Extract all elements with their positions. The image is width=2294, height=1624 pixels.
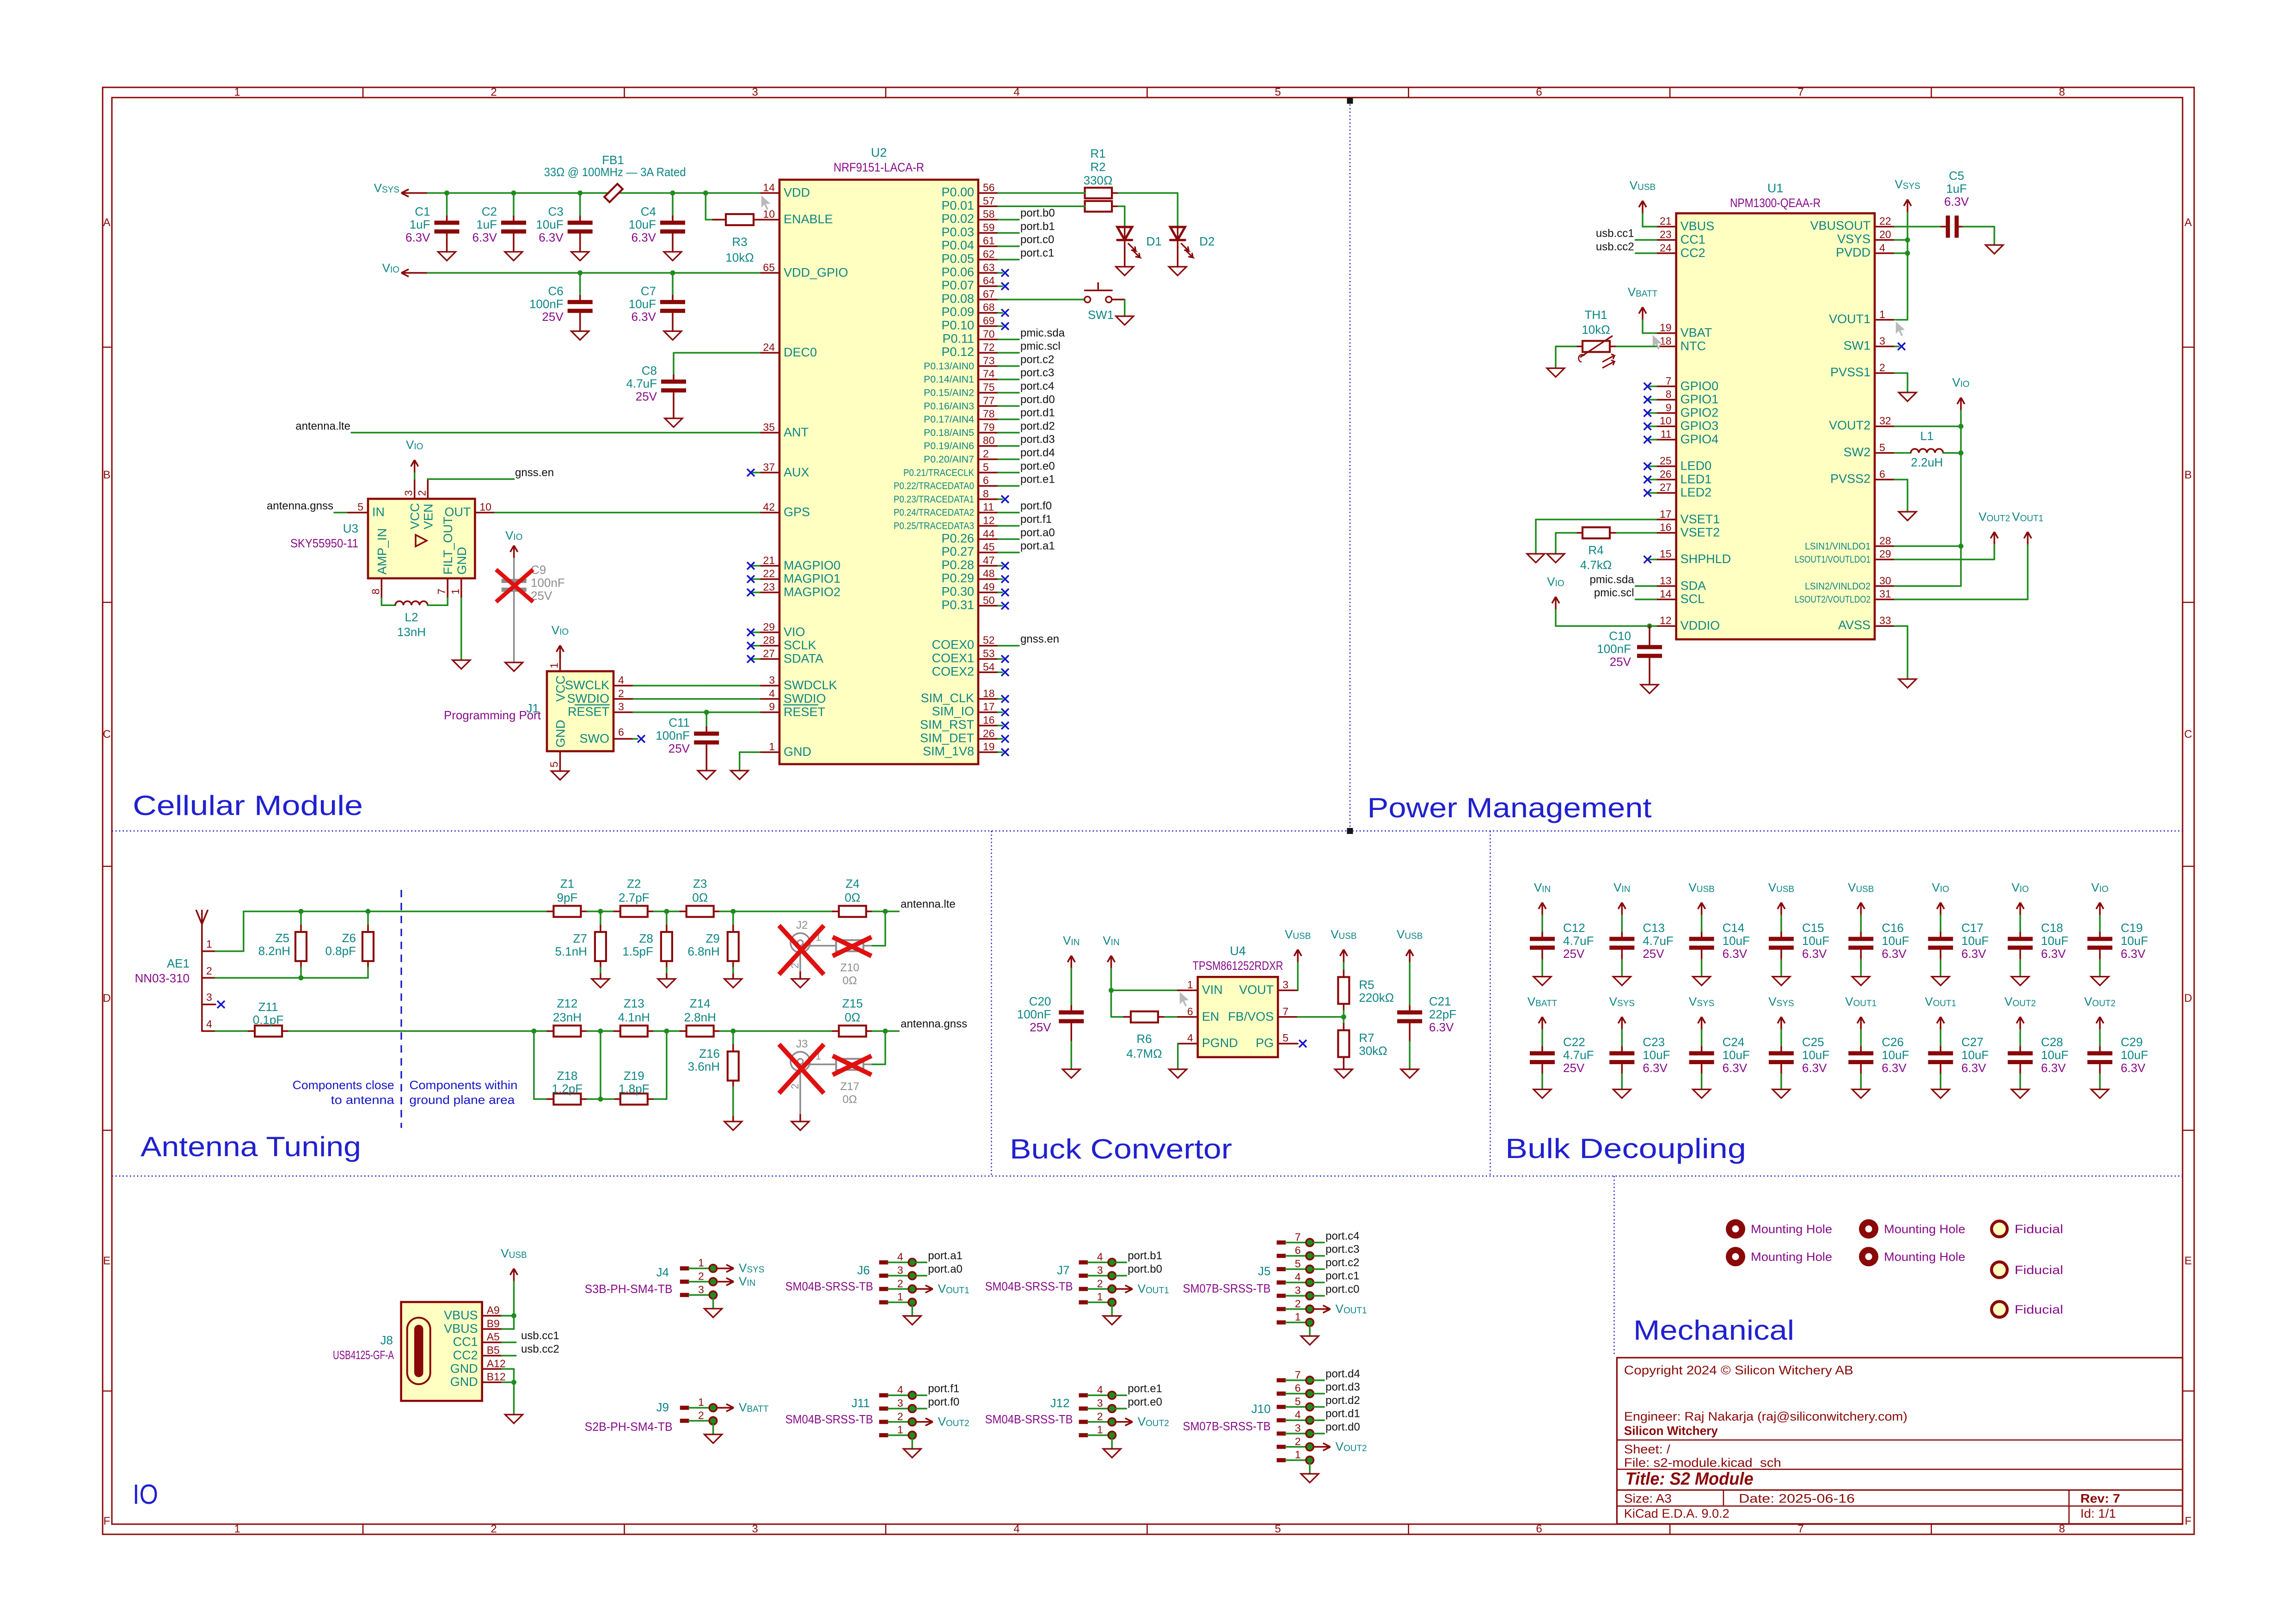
svg-text:1: 1 (1097, 1424, 1103, 1436)
ground below J11 (911, 1439, 913, 1449)
junction (366, 909, 371, 914)
svg-text:USB4125-GF-A: USB4125-GF-A (333, 1348, 394, 1362)
svg-text:16: 16 (983, 714, 995, 726)
AE1 pin 4 (202, 1030, 215, 1032)
svg-text:23nH: 23nH (553, 1010, 582, 1024)
svg-text:25: 25 (1660, 455, 1672, 467)
U2 pin 58 P0.02 (978, 219, 998, 221)
J4 pin 1 (680, 1266, 689, 1270)
U3 pin 2 VEN (427, 479, 429, 499)
svg-text:Sheet: /: Sheet: / (1624, 1442, 1671, 1456)
svg-text:7: 7 (1797, 1523, 1803, 1535)
svg-text:74: 74 (983, 368, 995, 380)
svg-text:PVSS1: PVSS1 (1830, 365, 1871, 379)
svg-text:port.a1: port.a1 (1020, 540, 1055, 552)
svg-text:D: D (2184, 992, 2192, 1005)
capacitor C10 100nF (1649, 626, 1650, 647)
junction (670, 270, 675, 276)
svg-text:C22: C22 (1563, 1035, 1585, 1049)
svg-text:1: 1 (234, 86, 240, 98)
wire VOUT2 (1895, 425, 1961, 427)
svg-text:to antenna: to antenna (331, 1093, 395, 1107)
svg-text:C6: C6 (548, 284, 563, 298)
junction (511, 1380, 516, 1385)
svg-text:3: 3 (403, 490, 415, 496)
U2 pin 64 P0.07 (978, 285, 998, 287)
svg-text:1.5pF: 1.5pF (622, 944, 653, 958)
capacitor C19 10uF (2096, 902, 2104, 915)
svg-text:6.3V: 6.3V (2041, 947, 2066, 961)
capacitor C26 10uF (1857, 1017, 1865, 1030)
svg-text:antenna.lte: antenna.lte (295, 420, 350, 432)
net label usb.cc2 at J8 (502, 1355, 516, 1357)
U4 pin 7 FB/VOS (1278, 1016, 1298, 1018)
resistor Z16 3.6nH (732, 1031, 734, 1045)
U2 pin 47 P0.28 (978, 565, 998, 567)
wire riser Z18/Z19 (600, 1031, 601, 1099)
svg-text:C15: C15 (1802, 921, 1824, 935)
AE1 pin 2 (202, 977, 215, 979)
capacitor C22 4.7uF (1539, 1017, 1546, 1030)
svg-text:SCLK: SCLK (784, 638, 816, 652)
wire VIO vertical rail (1960, 411, 1962, 586)
svg-text:R4: R4 (1588, 543, 1603, 557)
U2 pin 54 COEX2 (978, 672, 998, 674)
svg-text:33Ω @ 100MHz — 3A Rated: 33Ω @ 100MHz — 3A Rated (544, 165, 686, 179)
svg-text:6: 6 (1536, 1523, 1542, 1535)
svg-text:67: 67 (983, 288, 995, 300)
svg-text:SW2: SW2 (1843, 445, 1871, 459)
resistor R5 220kOhm (1343, 962, 1345, 970)
mouse cursor near U2 VDD (761, 195, 771, 210)
svg-text:SDA: SDA (1681, 579, 1706, 593)
wire J8 VBUS rail (513, 1281, 515, 1329)
capacitor C21 22pF (1409, 962, 1411, 1006)
svg-text:79: 79 (983, 421, 995, 433)
svg-text:4: 4 (1879, 242, 1885, 254)
svg-text:4: 4 (1013, 86, 1019, 98)
svg-text:1: 1 (1295, 1311, 1301, 1323)
svg-text:6.3V: 6.3V (1723, 947, 1748, 961)
section separator vertical (Antenna Tuning | Buck Convertor) (991, 831, 992, 1177)
svg-text:FB/VOS: FB/VOS (1228, 1010, 1274, 1023)
svg-text:C4: C4 (641, 205, 656, 219)
svg-text:30: 30 (1879, 575, 1891, 587)
svg-text:GPIO3: GPIO3 (1681, 419, 1719, 433)
svg-text:35: 35 (763, 421, 775, 433)
svg-text:P0.05: P0.05 (941, 252, 974, 266)
U3 pin 1 GND (460, 578, 462, 598)
capacitor C11 100nF (705, 712, 707, 727)
capacitor C15 10uF (1778, 902, 1785, 915)
power flag VOUT2 at J10 (1314, 1443, 1331, 1451)
svg-text:Z10: Z10 (840, 962, 859, 974)
svg-text:port.d1: port.d1 (1325, 1408, 1360, 1420)
svg-text:J12: J12 (1050, 1396, 1070, 1410)
svg-text:13nH: 13nH (397, 625, 426, 639)
U2 pin 49 P0.30 (978, 592, 998, 594)
svg-text:R6: R6 (1136, 1032, 1152, 1046)
wire C5 to ground (1957, 226, 1963, 227)
power symbol VUSB at U4 VOUT (1294, 950, 1301, 962)
svg-text:port.e1: port.e1 (1020, 473, 1055, 486)
wire PGND to ground (1177, 1043, 1179, 1045)
svg-text:B12: B12 (487, 1371, 506, 1383)
svg-text:B9: B9 (487, 1318, 500, 1330)
svg-text:3: 3 (1879, 335, 1885, 347)
wire AVSS to ground (1895, 625, 1908, 627)
svg-text:Date: 2025-06-16: Date: 2025-06-16 (1739, 1492, 1855, 1506)
svg-text:port.c4: port.c4 (1325, 1230, 1359, 1242)
svg-text:LED0: LED0 (1681, 459, 1712, 473)
ground below U2 GND (731, 771, 748, 779)
svg-text:14: 14 (1660, 588, 1672, 600)
svg-text:1.2pF: 1.2pF (552, 1082, 583, 1096)
resistor Z3 0 ohm (687, 906, 714, 917)
wire Z11 to Z12 (289, 1030, 547, 1032)
svg-text:80: 80 (983, 435, 995, 447)
svg-text:6.3V: 6.3V (2121, 947, 2146, 961)
svg-text:VDDIO: VDDIO (1681, 619, 1720, 632)
mounting hole MK2 (1859, 1219, 1878, 1238)
svg-text:73: 73 (983, 355, 995, 367)
svg-text:D2: D2 (1199, 234, 1214, 248)
J12 pin 2 (1079, 1420, 1088, 1424)
svg-text:P0.20/AIN7: P0.20/AIN7 (924, 454, 974, 465)
U1 pin 16 VSET2 (1656, 532, 1676, 534)
U1 pin 1 VOUT1 (1875, 319, 1895, 321)
svg-text:Z13: Z13 (624, 996, 644, 1010)
svg-text:GPIO2: GPIO2 (1681, 405, 1719, 419)
svg-text:27: 27 (1660, 481, 1672, 493)
svg-text:10uF: 10uF (1882, 1048, 1909, 1062)
section separator vertical (Buck Convertor | Bulk Decoupling) (1490, 831, 1490, 1177)
svg-text:port.c2: port.c2 (1020, 353, 1054, 366)
svg-text:0Ω: 0Ω (845, 1010, 860, 1024)
U1 pin 27 LED2 (1656, 492, 1676, 494)
U1 pin 25 LED0 (1656, 466, 1676, 467)
svg-text:SDATA: SDATA (784, 652, 823, 666)
svg-text:S2B-PH-SM4-TB: S2B-PH-SM4-TB (585, 1420, 673, 1434)
J10 pin 7 (1277, 1378, 1286, 1382)
section separator vertical (Cellular Module | Power Management) (1349, 101, 1350, 831)
svg-text:P0.19/AIN6: P0.19/AIN6 (924, 441, 974, 452)
svg-text:port.e0: port.e0 (1128, 1396, 1162, 1409)
wire (720, 1030, 833, 1032)
U1 pin 5 SW2 (1875, 452, 1895, 454)
svg-text:28: 28 (1879, 534, 1891, 546)
svg-text:pmic.sda: pmic.sda (1020, 327, 1065, 339)
svg-text:RESET: RESET (784, 705, 825, 719)
junction (511, 190, 516, 196)
svg-text:0Ω: 0Ω (842, 974, 857, 987)
wire L1 to VIO rail (1943, 452, 1961, 454)
J1 pin 6 SWO (613, 738, 633, 740)
power symbol VSYS at U1 (1904, 200, 1911, 213)
svg-text:23: 23 (1660, 228, 1672, 240)
svg-text:68: 68 (983, 301, 995, 313)
wire lte rail segment (301, 911, 547, 913)
net label port.d0 (1313, 1433, 1324, 1434)
svg-text:2.2uH: 2.2uH (1911, 455, 1943, 469)
U2 pin 12 P0.25/TRACEDATA3 (978, 525, 998, 527)
U2 pin 2 P0.20/AIN7 (978, 459, 998, 460)
svg-text:24: 24 (1660, 242, 1672, 254)
svg-text:C16: C16 (1882, 921, 1904, 935)
J2 DNP cross (779, 925, 824, 974)
svg-text:P0.00: P0.00 (941, 185, 974, 199)
svg-text:R3: R3 (732, 235, 747, 249)
no-connect U4 PG (1299, 1040, 1306, 1048)
wire P0.00 to R1 (998, 192, 1085, 194)
svg-text:330Ω: 330Ω (1084, 173, 1113, 187)
svg-text:port.b1: port.b1 (1128, 1250, 1162, 1262)
svg-text:2: 2 (789, 1084, 801, 1089)
svg-text:J3: J3 (796, 1038, 808, 1050)
svg-text:A5: A5 (487, 1331, 500, 1343)
resistor Z10 0 ohm (DNP) (836, 940, 864, 951)
svg-text:C7: C7 (641, 284, 656, 298)
C9 DNP cross (496, 570, 533, 602)
svg-text:2: 2 (897, 1410, 903, 1422)
svg-text:SWO: SWO (580, 731, 610, 745)
U1 pin 10 GPIO3 (1656, 425, 1676, 427)
J8 pin B12 GND (482, 1381, 502, 1383)
svg-text:10: 10 (479, 501, 491, 513)
svg-text:J11: J11 (852, 1396, 870, 1410)
svg-text:usb.cc1: usb.cc1 (521, 1330, 559, 1342)
resistor Z13 4.1nH (620, 1025, 648, 1036)
svg-text:port.f1: port.f1 (1020, 513, 1052, 526)
U4 pin 1 VIN (1178, 990, 1198, 992)
U2 pin 19 SIM_1V8 (978, 751, 998, 753)
title block outline (1617, 1358, 2183, 1524)
svg-text:Z4: Z4 (846, 877, 859, 891)
svg-text:16: 16 (1660, 521, 1672, 533)
J5 pin 4 (1277, 1281, 1286, 1285)
fiducial FID1 (1992, 1221, 2007, 1237)
svg-text:100nF: 100nF (531, 576, 565, 590)
svg-text:10uF: 10uF (1723, 934, 1750, 948)
svg-text:1: 1 (1097, 1291, 1103, 1303)
junction (883, 1029, 888, 1034)
svg-text:SM04B-SRSS-TB: SM04B-SRSS-TB (985, 1412, 1073, 1426)
svg-text:5: 5 (1879, 441, 1885, 453)
svg-text:1: 1 (698, 1396, 704, 1408)
IC U3 SKY55950-11 body (368, 499, 475, 578)
U1 pin 4 PVDD (1875, 252, 1895, 254)
U2 pin 70 P0.11 (978, 339, 998, 341)
J7 pin 4 (1079, 1260, 1088, 1264)
junction (703, 190, 708, 196)
svg-text:6: 6 (1879, 468, 1885, 480)
svg-text:port.c3: port.c3 (1325, 1243, 1359, 1256)
svg-text:P0.27: P0.27 (941, 545, 974, 558)
svg-text:GND: GND (784, 745, 811, 759)
J7 pin 3 (1079, 1274, 1088, 1278)
svg-text:R2: R2 (1090, 160, 1105, 174)
svg-text:70: 70 (983, 328, 995, 340)
wire TH1 to NTC (1610, 346, 1616, 348)
svg-text:10uF: 10uF (629, 297, 656, 311)
svg-text:CC2: CC2 (1681, 246, 1705, 260)
wire P0.08 to SW1 (998, 299, 1085, 300)
U2 pin 53 COEX1 (978, 658, 998, 660)
mounting hole MK4 (1859, 1247, 1878, 1266)
junction (670, 190, 675, 196)
junction (577, 270, 583, 276)
power symbol VUSB above U1 (1639, 201, 1646, 214)
ground below J2 (799, 972, 801, 979)
junction (664, 909, 669, 914)
U1 pin 18 NTC (1656, 346, 1676, 348)
svg-text:5.1nH: 5.1nH (555, 944, 587, 958)
svg-text:usb.cc1: usb.cc1 (1596, 227, 1634, 240)
U3 pin 5 IN (334, 512, 348, 514)
wire U3 GND down (460, 598, 462, 660)
wire J8 GND rail (502, 1368, 514, 1370)
svg-text:Z6: Z6 (342, 931, 356, 945)
net label port.c3 (1313, 1255, 1324, 1257)
net label port.c1 (1313, 1281, 1324, 1283)
svg-text:Copyright 2024 © Silicon Witch: Copyright 2024 © Silicon Witchery AB (1624, 1363, 1853, 1377)
svg-text:7: 7 (1666, 375, 1672, 387)
J5 pin 5 (1277, 1267, 1286, 1271)
svg-text:D: D (103, 992, 110, 1005)
svg-text:29: 29 (1879, 548, 1891, 560)
svg-text:2.8nH: 2.8nH (684, 1010, 716, 1024)
svg-text:Mounting Hole: Mounting Hole (1751, 1222, 1832, 1236)
U2 pin 52 COEX0 (978, 645, 998, 647)
svg-text:1: 1 (548, 662, 560, 668)
power flag VIN at J4 (717, 1278, 734, 1286)
U2 pin 80 P0.19/AIN6 (978, 445, 998, 447)
svg-text:usb.cc2: usb.cc2 (521, 1343, 559, 1355)
net label port.e1 (1116, 1394, 1126, 1396)
svg-text:6.8nH: 6.8nH (687, 944, 719, 958)
wire R1 to D2 (1118, 192, 1178, 194)
net label port.f1 (916, 1394, 926, 1396)
svg-text:PGND: PGND (1202, 1036, 1238, 1050)
svg-text:gnss.en: gnss.en (515, 466, 554, 479)
J12 pin 4 (1079, 1393, 1088, 1397)
svg-text:VBUSOUT: VBUSOUT (1810, 219, 1871, 233)
U2 pin 48 P0.29 (978, 578, 998, 580)
svg-text:P0.18/AIN5: P0.18/AIN5 (924, 428, 974, 438)
junction on RESET wire (704, 710, 709, 715)
svg-text:1: 1 (234, 1523, 240, 1535)
svg-text:P0.16/AIN3: P0.16/AIN3 (924, 401, 974, 411)
svg-text:L2: L2 (405, 610, 418, 624)
svg-text:B5: B5 (487, 1344, 500, 1356)
svg-text:P0.01: P0.01 (941, 198, 974, 212)
mounting hole MK1 (1726, 1219, 1745, 1238)
U2 pin 62 P0.05 (978, 259, 998, 261)
svg-text:J9: J9 (656, 1400, 669, 1414)
junction (299, 975, 304, 981)
junction (1905, 251, 1910, 256)
wire VDD junction to R3 (705, 193, 707, 220)
svg-text:10kΩ: 10kΩ (1582, 323, 1610, 337)
svg-text:4.7uF: 4.7uF (1563, 1048, 1594, 1062)
svg-text:antenna.gnss: antenna.gnss (901, 1017, 967, 1030)
net label port.e0 (1116, 1408, 1126, 1410)
svg-text:P0.24/TRACEDATA2: P0.24/TRACEDATA2 (894, 508, 974, 518)
svg-text:CC1: CC1 (1681, 233, 1705, 246)
svg-text:1uF: 1uF (410, 218, 430, 232)
svg-text:port.f0: port.f0 (1020, 500, 1052, 512)
svg-text:NRF9151-LACA-R: NRF9151-LACA-R (834, 160, 924, 174)
svg-text:GND: GND (450, 1361, 478, 1375)
capacitor C8 4.7uF (661, 382, 686, 391)
capacitor C29 10uF (2096, 1017, 2104, 1030)
svg-text:C19: C19 (2121, 921, 2143, 935)
wire LSOUT1 to VOUT2 (1895, 558, 1994, 560)
wire (587, 1030, 614, 1032)
svg-text:Z7: Z7 (573, 932, 587, 945)
J4 pin 2 (680, 1280, 689, 1284)
J10 pin 2 (1277, 1445, 1286, 1449)
power symbol VUSB at J8 (510, 1269, 518, 1281)
svg-text:7: 7 (1797, 86, 1803, 98)
svg-text:3: 3 (618, 701, 624, 713)
wire P0.01 to R2 (998, 206, 1085, 208)
J9 pin 2 (680, 1419, 689, 1423)
junction (730, 909, 736, 914)
svg-text:B: B (2184, 469, 2192, 481)
svg-text:0Ω: 0Ω (845, 891, 860, 905)
svg-text:COEX2: COEX2 (932, 664, 974, 678)
U1 pin 12 VDDIO (1656, 625, 1676, 627)
net label port.d1 (1313, 1419, 1324, 1421)
svg-text:7: 7 (1282, 1005, 1288, 1017)
J10 pin 5 (1277, 1405, 1286, 1409)
svg-text:C25: C25 (1802, 1035, 1824, 1049)
U2 pin 63 P0.06 (978, 272, 998, 274)
svg-text:C23: C23 (1643, 1035, 1665, 1049)
svg-text:2: 2 (206, 965, 212, 977)
svg-text:25V: 25V (1610, 655, 1632, 669)
svg-text:port.c0: port.c0 (1325, 1283, 1359, 1296)
svg-text:6.3V: 6.3V (2121, 1061, 2146, 1075)
section separator horizontal (top sections / middle sections) (112, 830, 2183, 831)
svg-text:P0.29: P0.29 (941, 571, 974, 585)
svg-text:File: s2-module.kicad_sch: File: s2-module.kicad_sch (1624, 1456, 1781, 1470)
svg-text:pmic.scl: pmic.scl (1594, 587, 1634, 599)
svg-text:FILT_OUT: FILT_OUT (441, 516, 455, 575)
power symbol VIO above J1 (557, 645, 564, 658)
svg-text:VBAT: VBAT (1681, 326, 1712, 340)
resistor Z6 0.8pF (367, 912, 369, 926)
svg-text:24: 24 (763, 341, 775, 353)
svg-text:100nF: 100nF (656, 729, 690, 742)
svg-text:C: C (103, 728, 110, 741)
svg-text:10uF: 10uF (2121, 934, 2148, 948)
svg-text:S3B-PH-SM4-TB: S3B-PH-SM4-TB (585, 1282, 673, 1296)
svg-text:Z11: Z11 (258, 1000, 278, 1014)
resistor Z7 5.1nH (600, 912, 601, 926)
svg-text:44: 44 (983, 527, 995, 539)
svg-text:6.3V: 6.3V (2041, 1061, 2066, 1075)
svg-text:Z9: Z9 (705, 932, 719, 945)
svg-text:Components close: Components close (293, 1078, 394, 1092)
svg-text:R1: R1 (1090, 147, 1105, 160)
svg-text:LSOUT2/VOUTLDO2: LSOUT2/VOUTLDO2 (1795, 594, 1871, 605)
svg-text:53: 53 (983, 648, 995, 660)
svg-text:port.c2: port.c2 (1325, 1256, 1359, 1269)
svg-text:C11: C11 (669, 716, 690, 729)
svg-text:59: 59 (983, 221, 995, 233)
